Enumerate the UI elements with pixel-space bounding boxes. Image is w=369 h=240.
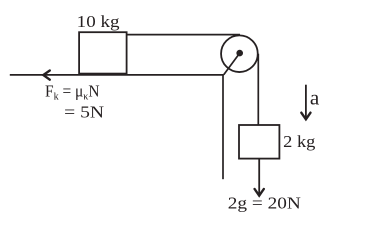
svg-text:a: a bbox=[310, 88, 320, 110]
svg-text:10 kg: 10 kg bbox=[77, 12, 120, 31]
svg-text:= 5N: = 5N bbox=[64, 102, 104, 121]
svg-text:2 kg: 2 kg bbox=[283, 132, 316, 151]
svg-text:Fk = μκN: Fk = μκN bbox=[45, 81, 100, 102]
svg-text:2g = 20N: 2g = 20N bbox=[228, 193, 301, 212]
